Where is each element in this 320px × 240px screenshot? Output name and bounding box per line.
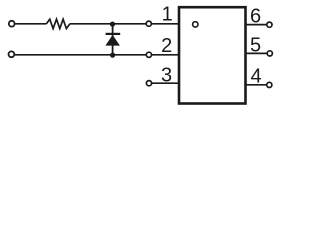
svg-text:6: 6: [250, 5, 261, 27]
input terminal bottom: [9, 51, 15, 57]
pin 3 terminal circle: [146, 81, 151, 86]
junction node bottom: [110, 53, 115, 58]
pin 1 terminal circle: [146, 21, 151, 26]
diode (cathode bar up, anode triangle below): [105, 34, 120, 46]
wire pin 6 stub: [246, 24, 268, 26]
wire top input segment (terminal to resistor): [15, 23, 47, 25]
svg-text:1: 1: [162, 4, 173, 26]
svg-text:4: 4: [251, 66, 262, 88]
IC pin-1 indicator dot: [193, 22, 198, 27]
junction node top: [110, 22, 115, 27]
svg-text:2: 2: [161, 35, 172, 57]
pin 6 terminal circle: [267, 22, 272, 27]
svg-text:3: 3: [161, 65, 172, 87]
pin 2 terminal circle: [146, 52, 151, 57]
resistor: [46, 19, 70, 28]
pin 4 terminal circle: [267, 82, 272, 87]
wire pin 4 stub: [246, 84, 268, 86]
svg-text:5: 5: [250, 35, 261, 57]
pin 5 terminal circle: [267, 51, 272, 56]
wire top segment (resistor to pin 1 of IC): [70, 23, 179, 25]
wire pin 5 stub: [246, 52, 268, 54]
wire bottom segment (terminal to pin 2 of IC): [15, 54, 179, 56]
wire pin 3 stub: [149, 82, 179, 84]
diode vertical branch wire: [112, 24, 114, 55]
input terminal top: [9, 21, 15, 27]
IC package U1 body: [179, 7, 246, 103]
